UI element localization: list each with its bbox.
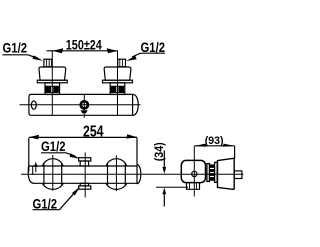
svg-text:G1/2: G1/2 <box>141 39 166 55</box>
svg-text:254: 254 <box>83 124 104 141</box>
svg-text:(34): (34) <box>154 142 166 161</box>
svg-text:150±24: 150±24 <box>66 37 102 52</box>
svg-text:(93): (93) <box>205 135 224 147</box>
svg-text:G1/2: G1/2 <box>41 138 66 154</box>
svg-text:G1/2: G1/2 <box>33 196 58 212</box>
svg-text:G1/2: G1/2 <box>3 40 28 56</box>
